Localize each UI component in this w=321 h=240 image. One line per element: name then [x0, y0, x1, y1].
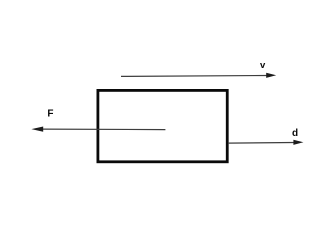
force arrow F [31, 127, 165, 132]
svg-text:v: v [260, 60, 266, 71]
svg-text:d: d [292, 128, 298, 139]
svg-text:F: F [47, 109, 53, 120]
block (rectangle) [98, 90, 227, 161]
displacement arrow d [228, 140, 303, 145]
velocity arrow v [121, 73, 276, 78]
